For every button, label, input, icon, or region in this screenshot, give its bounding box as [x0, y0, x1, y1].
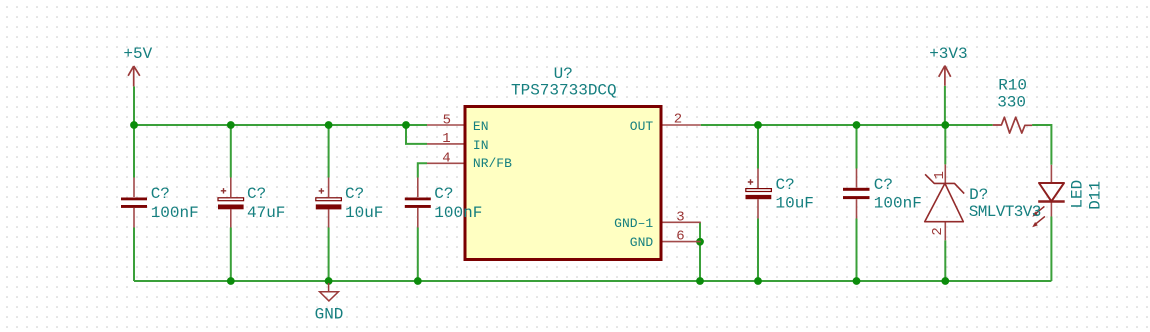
junction +3V3 / TVS / rail: [941, 121, 949, 129]
pin 6 GND stub: [663, 241, 701, 243]
junction C3 / GND bottom: [325, 277, 333, 285]
capacitor C1 plates (100nF): [121, 198, 147, 201]
svg-text:6: 6: [676, 228, 684, 244]
junction GND pins to rail: [696, 277, 704, 285]
junction TVS bottom: [941, 277, 949, 285]
svg-text:C?: C?: [874, 176, 893, 194]
wire R10 to LED corner: [1032, 125, 1051, 165]
LED D11 top pin: [1050, 165, 1052, 183]
power symbol +3V3 arrow: [939, 66, 951, 86]
junction C6 bottom: [853, 277, 861, 285]
svg-text:D11: D11: [1086, 181, 1104, 210]
wire C3 bottom: [328, 228, 330, 282]
junction C5 bottom: [754, 277, 762, 285]
svg-text:OUT: OUT: [630, 119, 654, 134]
capacitor C5 plates (10uF polarized): [746, 189, 772, 192]
wire C4 bottom: [417, 228, 419, 282]
LED D11 emission arrow 2: [1034, 216, 1045, 225]
svg-text:10uF: 10uF: [345, 204, 383, 222]
junction C4 bottom: [414, 277, 422, 285]
svg-text:GND: GND: [630, 235, 654, 250]
svg-text:1: 1: [932, 171, 948, 179]
svg-text:1: 1: [442, 131, 450, 147]
svg-text:47uF: 47uF: [247, 204, 285, 222]
capacitor C1 lead: [133, 178, 135, 228]
svg-text:C?: C?: [776, 176, 795, 194]
pin 1 IN stub: [427, 143, 464, 145]
capacitor C5 plus sign: [748, 179, 753, 184]
svg-text:330: 330: [997, 93, 1026, 111]
svg-text:R10: R10: [998, 77, 1027, 95]
svg-text:IN: IN: [473, 138, 489, 153]
svg-text:NR/FB: NR/FB: [473, 156, 512, 171]
LED D11 bottom pin: [1050, 202, 1052, 217]
junction C2 top: [227, 121, 235, 129]
wire GND pins drop: [699, 222, 701, 281]
svg-text:TPS73733DCQ: TPS73733DCQ: [511, 81, 617, 99]
wire C2 top: [230, 125, 232, 178]
pin 5 EN stub: [427, 124, 464, 126]
svg-text:4: 4: [442, 151, 450, 167]
pin 2 OUT stub: [663, 124, 701, 126]
svg-text:EN: EN: [473, 119, 489, 134]
junction C5 top: [754, 121, 762, 129]
svg-text:+5V: +5V: [123, 45, 152, 63]
svg-text:100nF: 100nF: [434, 204, 482, 222]
wire C5 bottom: [757, 219, 759, 282]
wire C6 bottom: [856, 219, 858, 282]
svg-text:10uF: 10uF: [776, 195, 814, 213]
capacitor C6 lead: [856, 169, 858, 219]
svg-text:C?: C?: [434, 185, 453, 203]
junction C6 top: [853, 121, 861, 129]
wire IN pin drop: [406, 125, 427, 144]
wire +3V3 drop: [944, 86, 946, 125]
capacitor C5 lead: [757, 169, 759, 219]
svg-text:C?: C?: [345, 185, 364, 203]
svg-text:D?: D?: [969, 186, 988, 204]
capacitor C3 plates (10uF polarized): [316, 198, 342, 201]
pin 4 NR/FB stub: [427, 162, 464, 164]
wire C1 top: [133, 125, 135, 178]
junction GND-1/GND pins: [696, 238, 704, 246]
wire C2 bottom: [230, 228, 232, 282]
ground symbol triangle: [320, 292, 339, 301]
LED D11 emission arrow 1: [1034, 206, 1045, 215]
TVS diode D? triangle: [925, 183, 964, 221]
resistor R10 zigzag: [993, 117, 1032, 133]
TVS diode D? bottom pin: [944, 222, 946, 241]
TVS diode D? zener bar: [925, 174, 964, 193]
wire C6 top: [856, 125, 858, 169]
wire C3 top: [328, 125, 330, 178]
wire +5V drop: [133, 86, 135, 125]
svg-text:LED: LED: [1068, 180, 1086, 209]
svg-text:+3V3: +3V3: [929, 45, 967, 63]
capacitor C4 lead: [417, 178, 419, 228]
wire LED bottom: [1050, 217, 1052, 282]
junction IN drop: [402, 121, 410, 129]
transistor-protection TVS diode D? top pin: [944, 164, 946, 183]
svg-text:100nF: 100nF: [151, 204, 199, 222]
junction C3 top: [325, 121, 333, 129]
capacitor C2 lead: [230, 178, 232, 228]
svg-text:100nF: 100nF: [874, 195, 922, 213]
wire OUT rail: [701, 124, 993, 126]
power symbol +5V arrow: [128, 66, 140, 86]
junction C2 bottom: [227, 277, 235, 285]
wire bottom ground rail: [134, 280, 1051, 282]
ground symbol stem: [328, 283, 330, 292]
op-amp U1 body (regulator TPS73733DCQ): [465, 107, 661, 260]
capacitor C2 plus sign: [221, 188, 226, 193]
junction at +5V / C1 / rail: [130, 121, 138, 129]
wire C5 top: [757, 125, 759, 169]
LED D11 cathode bar: [1038, 200, 1065, 202]
svg-text:2: 2: [930, 227, 946, 235]
wire top rail left from +5V to EN pin: [134, 124, 427, 126]
capacitor C2 plates (47uF polarized): [218, 198, 244, 201]
wire TVS bottom: [944, 240, 946, 281]
capacitor C4 plates (100nF): [405, 198, 431, 201]
wire TVS top: [944, 125, 946, 164]
LED D11 triangle: [1039, 183, 1064, 201]
capacitor C3 lead: [328, 178, 330, 228]
capacitor C6 plates (100nF): [843, 188, 870, 191]
svg-text:2: 2: [674, 111, 682, 127]
svg-text:3: 3: [676, 209, 684, 225]
svg-text:C?: C?: [247, 185, 266, 203]
svg-text:GND: GND: [315, 306, 344, 324]
wire C1 bottom: [133, 228, 135, 282]
svg-text:SMLVT3V3: SMLVT3V3: [969, 203, 1041, 221]
svg-text:C?: C?: [151, 185, 170, 203]
pin 3 GND-1 stub: [663, 221, 701, 223]
wire NR/FB to C4: [418, 163, 427, 177]
svg-text:5: 5: [443, 112, 451, 128]
capacitor C3 plus sign: [319, 188, 324, 193]
svg-text:GND–1: GND–1: [614, 216, 653, 231]
